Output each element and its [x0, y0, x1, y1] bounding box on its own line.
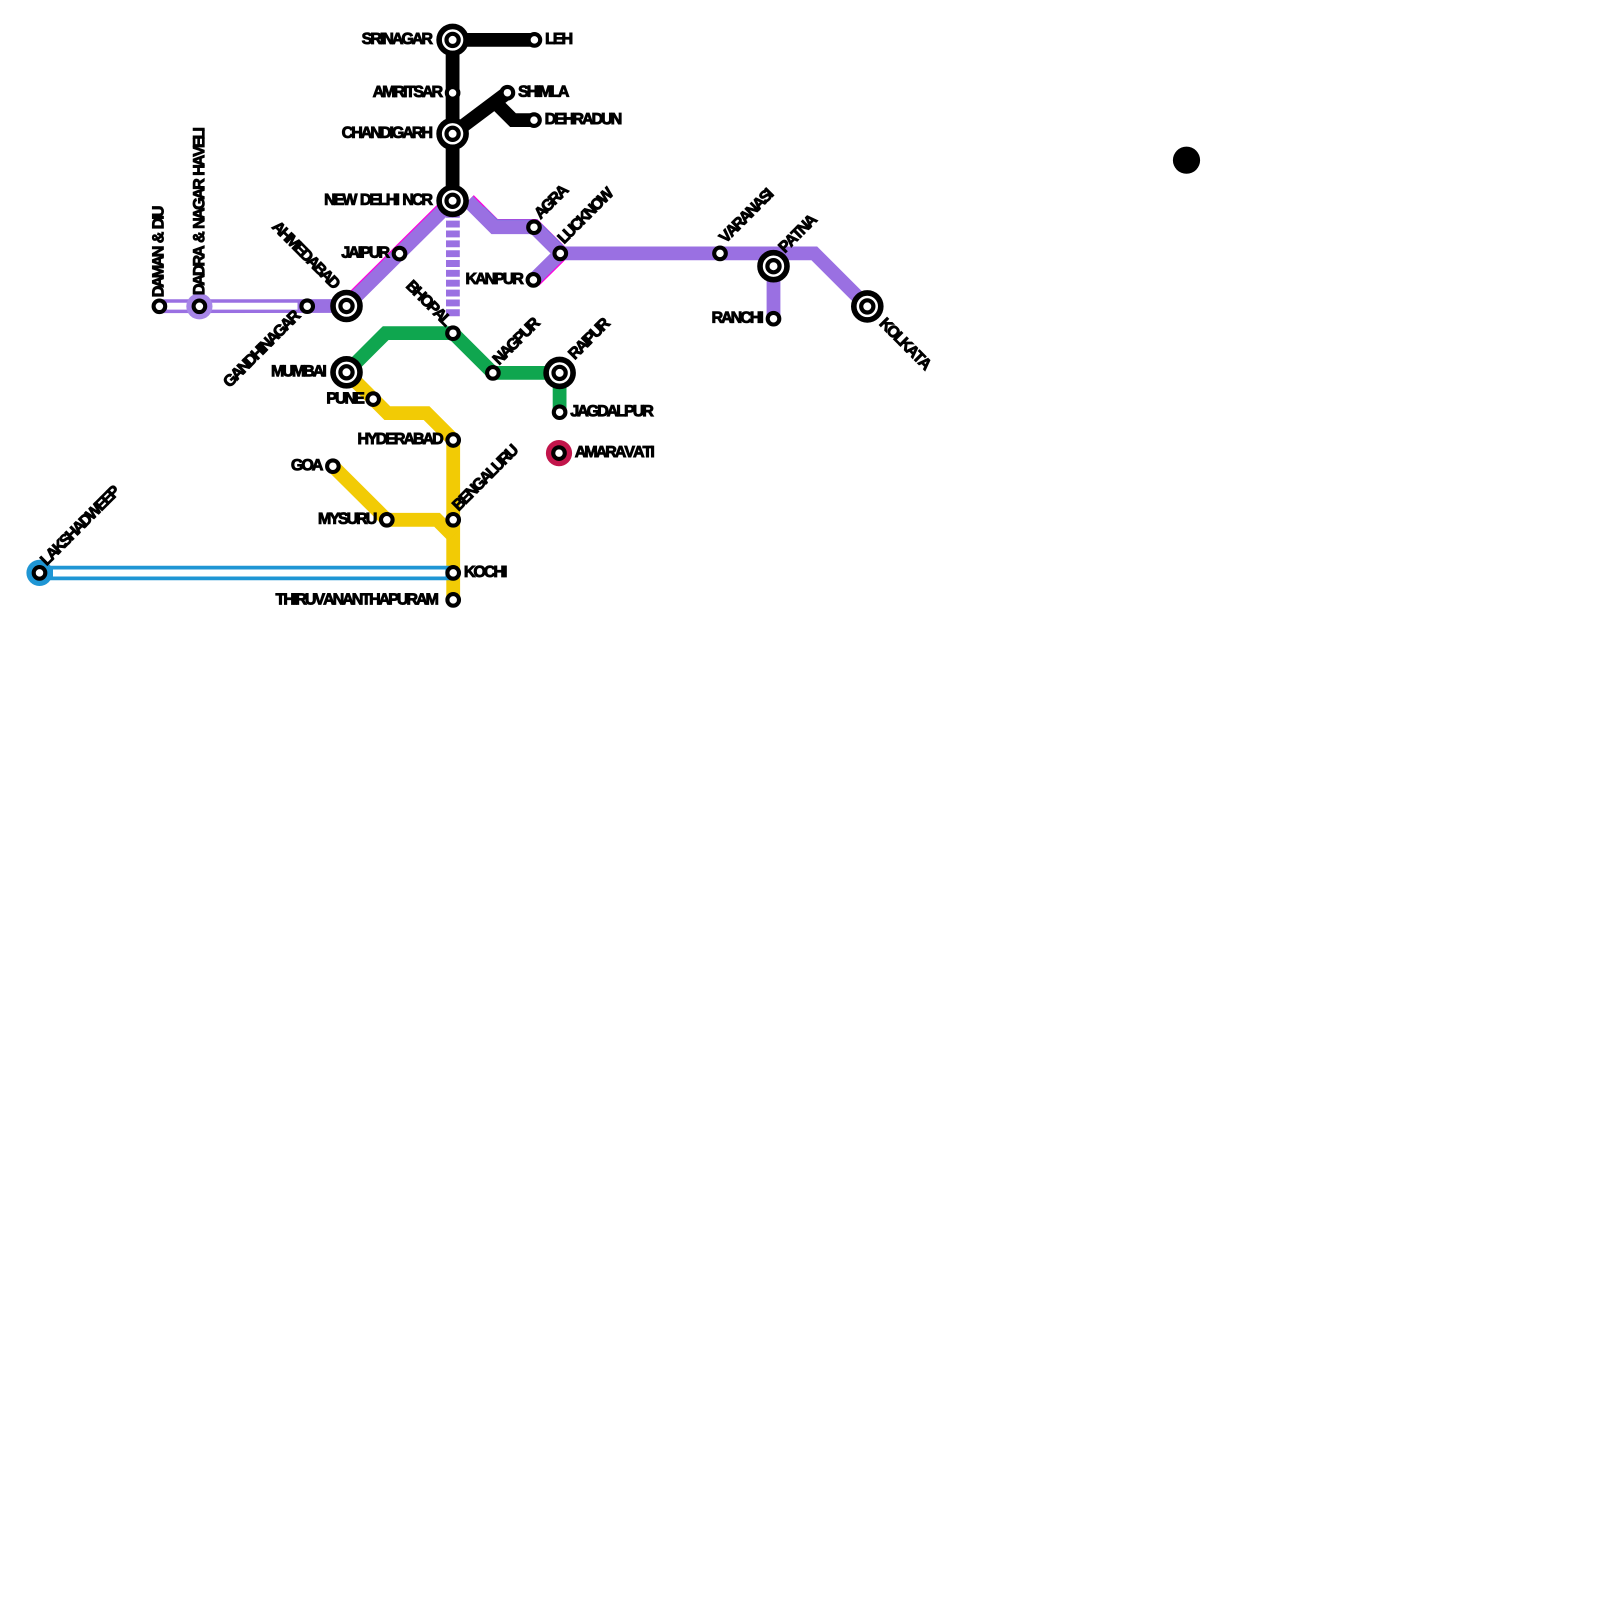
station DAMAN & DIU — [154, 301, 166, 313]
station JAGDALPUR — [554, 406, 566, 418]
label LAKSHADWEEP — [39, 484, 120, 565]
station BHOPAL — [447, 327, 459, 339]
station MYSURU — [381, 514, 393, 526]
label PUNE — [327, 392, 364, 403]
station AMARAVATI — [553, 447, 565, 459]
label KOCHI — [465, 566, 506, 577]
interchange station PATNA — [760, 253, 787, 280]
interchange station KOLKATA — [854, 293, 881, 320]
interchange station MUMBAI — [333, 359, 360, 386]
label GANDHINAGAR — [222, 309, 301, 388]
line: purple dashed New Delhi-Bhopal — [446, 211, 460, 317]
label HYDERABAD — [359, 433, 443, 444]
label AMRITSAR — [373, 86, 443, 97]
station LAKSHADWEEP — [34, 567, 46, 579]
interchange station AHMEDABAD — [333, 293, 360, 320]
station JAIPUR — [394, 248, 406, 260]
label AGRA — [533, 183, 569, 219]
label BENGALURU — [451, 444, 519, 512]
label DADRA & NAGAR HAVELI — [193, 128, 204, 294]
line: black Chandigarh-Shimla — [453, 93, 508, 134]
station KANPUR — [528, 274, 540, 286]
line: purple New Delhi-Agra-Lucknow-Varanasi-Kolkata — [468, 201, 867, 307]
line: black Srinagar-Leh — [453, 33, 535, 47]
line: periwinkle underlay Agra-Lucknow — [480, 212, 561, 253]
interchange station NEW DELHI NCR — [439, 187, 466, 214]
line: white core of Daman double line — [167, 303, 298, 310]
line: white core of Lakshadweep double line — [53, 570, 445, 577]
station SHIMLA — [502, 87, 514, 99]
label SRINAGAR — [362, 33, 433, 44]
label AHMEDABAD — [271, 220, 341, 290]
label JAIPUR — [342, 247, 390, 258]
station DADRA & NAGAR HAVELI — [194, 301, 206, 313]
label AMARAVATI — [575, 446, 654, 457]
line: magenta underlay Ahmedabad-New Delhi — [343, 193, 459, 308]
station PUNE — [367, 393, 379, 405]
line: purple double-stroke Daman-Gandhinagar-Ahmedabad — [159, 299, 346, 313]
purple disc: Dadra & Nagar Haveli — [186, 293, 212, 319]
station BENGALURU — [447, 514, 459, 526]
label KOLKATA — [879, 317, 933, 371]
label JAGDALPUR — [571, 405, 654, 416]
line: black branch to Dehradun — [495, 102, 534, 120]
label DAMAN & DIU — [152, 207, 163, 296]
line: yellow Mumbai-Pune-Hyderabad-Bengaluru-Kochi-Thiruvananthapuram — [347, 372, 454, 600]
line: green Mumbai-Bhopal-Nagpur-Raipur — [347, 333, 560, 373]
station VARANASI — [714, 248, 726, 260]
label BHOPAL — [406, 280, 454, 328]
label THIRUVANANTHAPURAM — [276, 593, 438, 604]
line: purple Lucknow-Kanpur branch — [533, 253, 560, 280]
station KOCHI — [447, 567, 459, 579]
label NAGPUR — [492, 316, 541, 365]
lone black dot (north-east) — [1173, 147, 1200, 174]
label LEH — [546, 33, 572, 44]
interchange station CHANDIGARH — [439, 120, 466, 147]
label RAIPUR — [568, 316, 611, 359]
line: green Raipur-Jagdalpur branch — [553, 373, 567, 412]
station LUCKNOW — [555, 248, 567, 260]
label PATNA — [778, 213, 818, 253]
label VARANASI — [718, 187, 774, 243]
label KANPUR — [467, 273, 524, 284]
label RANCHI — [713, 312, 763, 323]
station AGRA — [528, 221, 540, 233]
station DEHRADUN — [528, 114, 540, 126]
station GANDHINAGAR — [301, 300, 313, 312]
station RANCHI — [768, 313, 780, 325]
station THIRUVANANTHAPURAM — [447, 594, 459, 606]
label CHANDIGARH — [342, 127, 432, 138]
label SHIMLA — [519, 86, 569, 97]
label GOA — [292, 459, 323, 470]
label MUMBAI — [272, 365, 326, 376]
interchange station RAIPUR — [546, 359, 573, 386]
label LUCKNOW — [557, 186, 615, 244]
blue disc: Lakshadweep — [26, 560, 52, 586]
label NEW DELHI NCR — [325, 194, 432, 205]
label MYSURU — [319, 513, 376, 524]
line: yellow Goa-Mysuru-Kochi branch — [333, 466, 453, 536]
line: purple Patna-Ranchi branch — [767, 266, 781, 319]
line: purple Ahmedabad-Jaipur-New Delhi — [347, 201, 453, 306]
station NAGPUR — [487, 367, 499, 379]
line: magenta underlay New Delhi-Agra-Lucknow — [469, 200, 561, 253]
label DEHRADUN — [546, 113, 621, 124]
line: blue double-stroke Lakshadweep-Kochi — [40, 566, 454, 581]
station LEH — [529, 34, 541, 46]
crimson disc: Amaravati — [546, 440, 572, 466]
station AMRITSAR — [447, 87, 459, 99]
interchange station SRINAGAR — [439, 26, 466, 53]
station HYDERABAD — [447, 434, 459, 446]
station GOA — [327, 460, 339, 472]
line: black Srinagar-Amritsar-Chandigarh-New Delhi — [446, 40, 460, 201]
line: magenta underlay Lucknow-Kanpur — [534, 254, 561, 280]
